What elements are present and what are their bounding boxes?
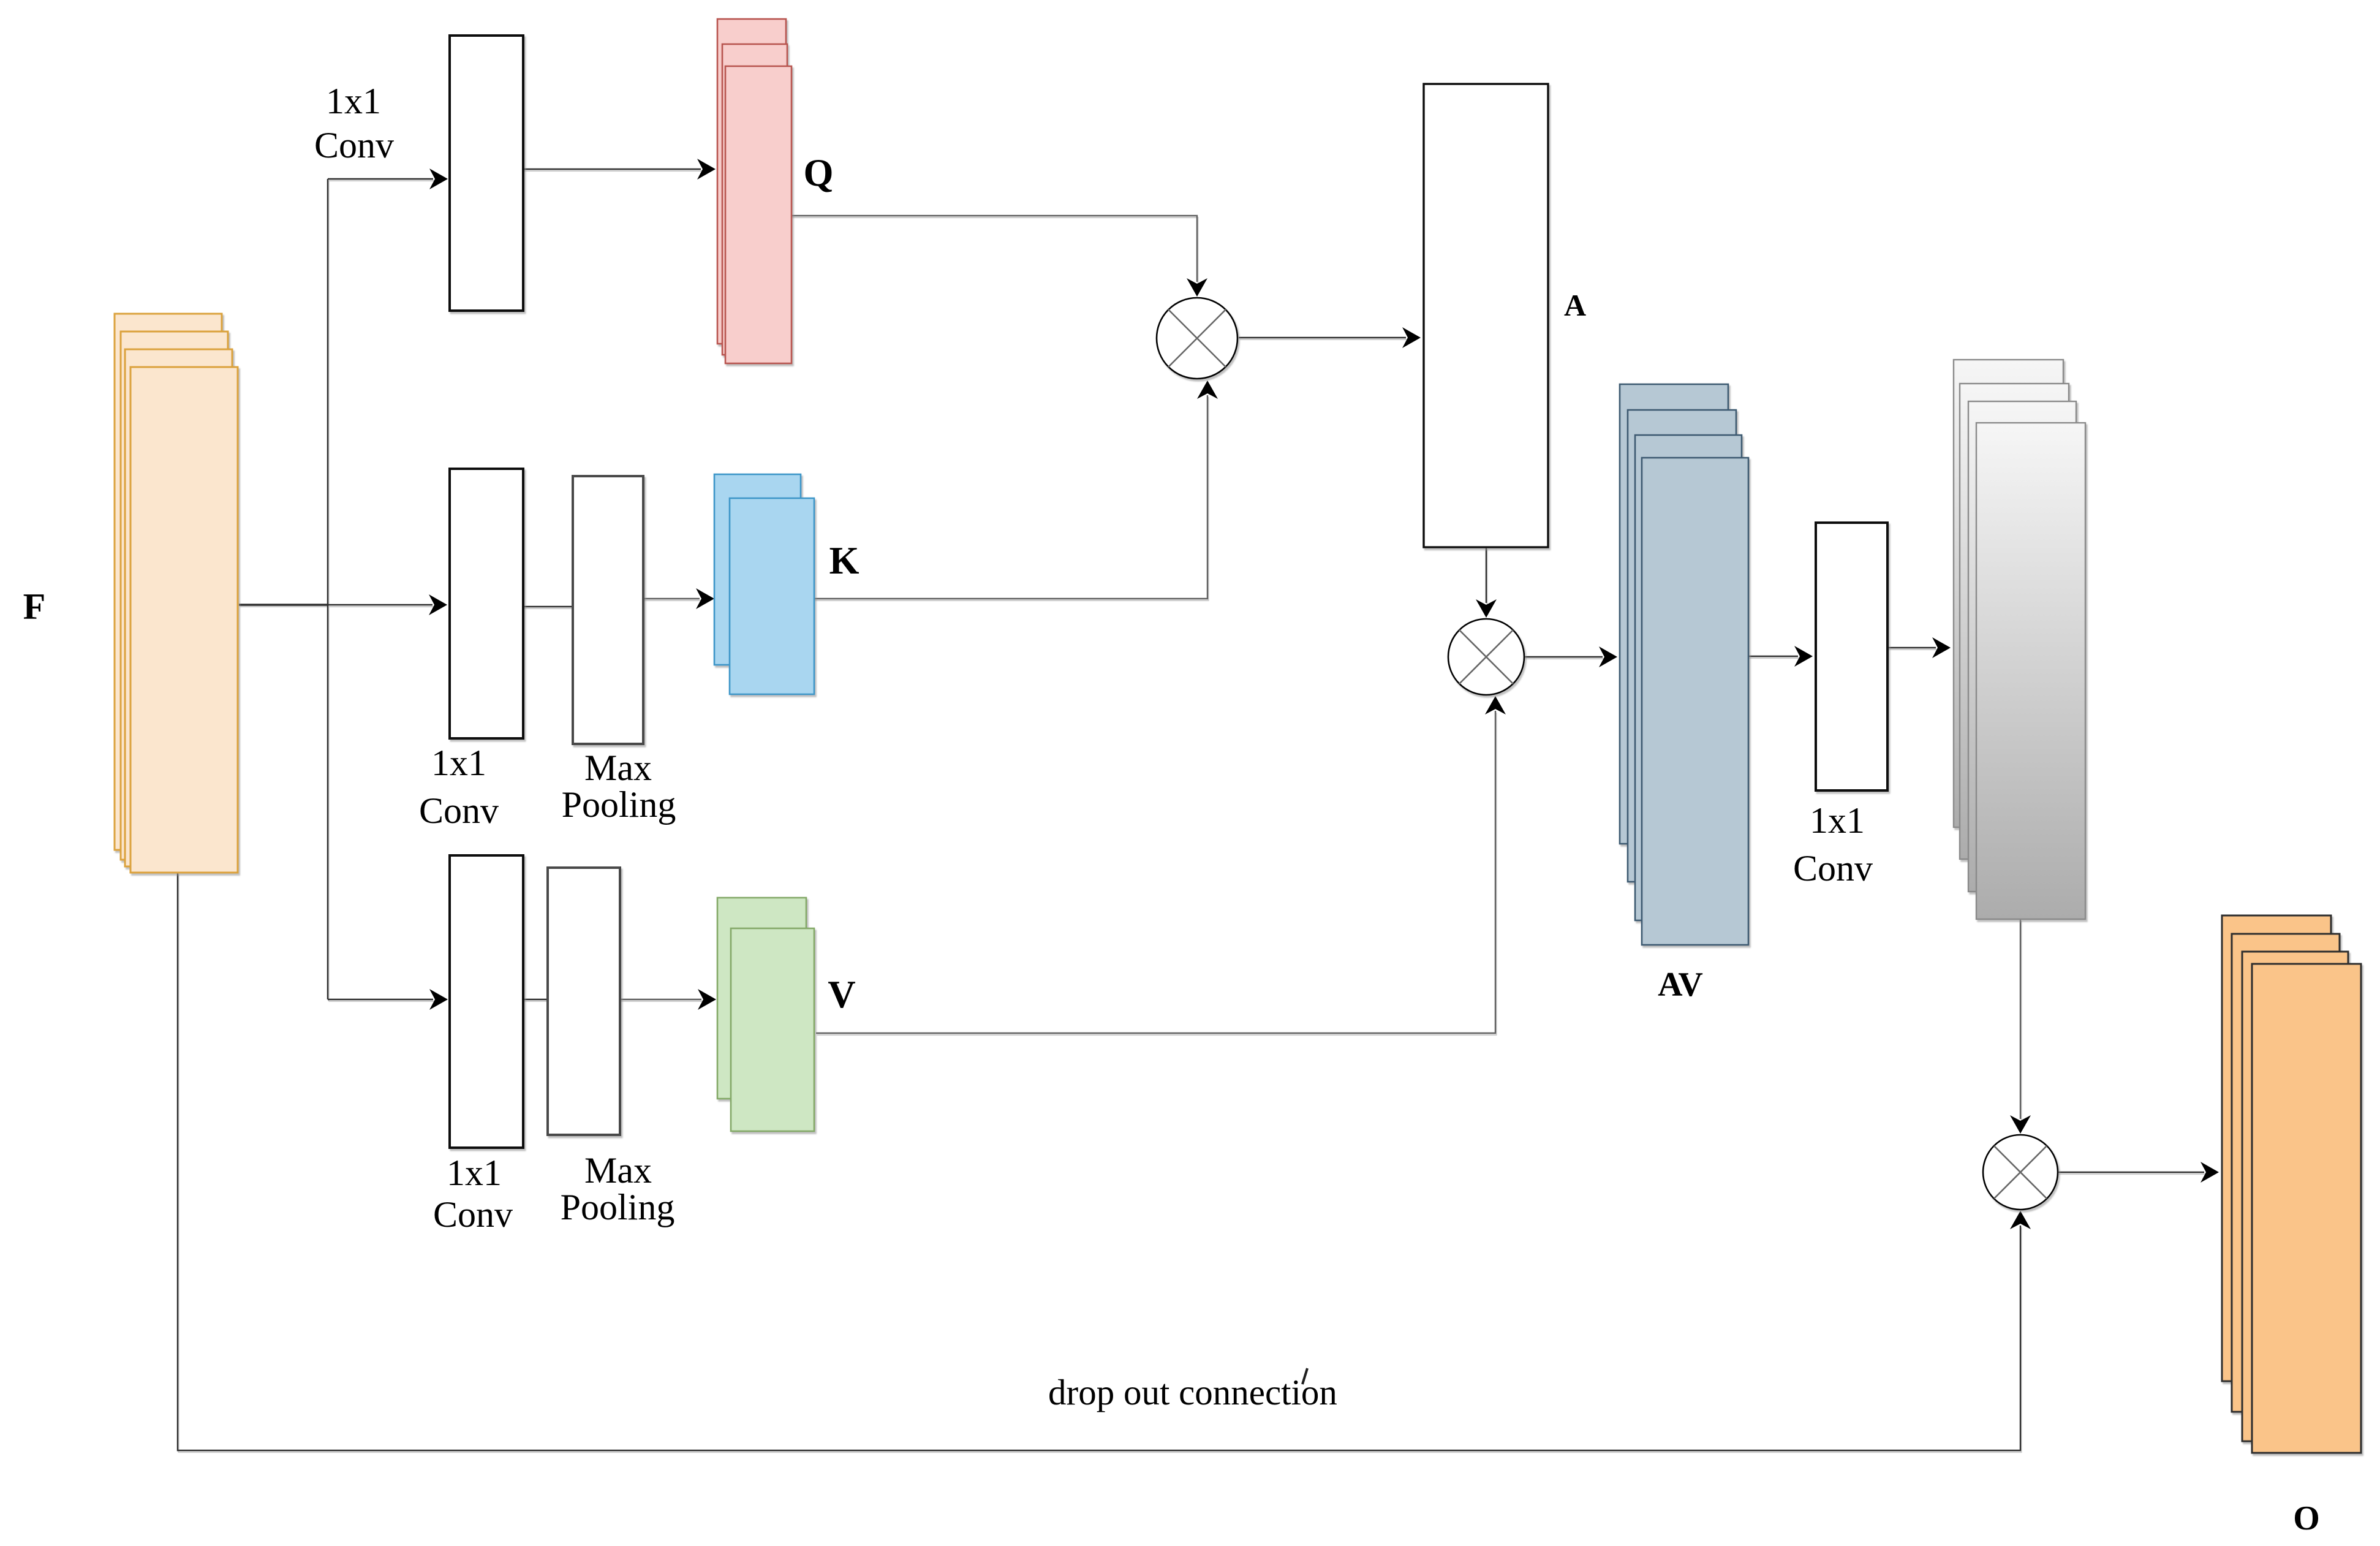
wire branch to V conv [328, 999, 433, 1000]
wire multiply3 to O [2058, 1172, 2204, 1173]
wire branch vertical [327, 179, 328, 999]
K max pooling box [573, 476, 643, 744]
wire V pool to V [620, 999, 701, 1000]
svg-text:1x1: 1x1 [1810, 800, 1865, 841]
arrow into K conv [429, 594, 447, 615]
arrow into AV conv [1794, 646, 1813, 667]
arrow into Q conv [429, 169, 448, 189]
wire multiply2 to AV [1524, 656, 1603, 657]
svg-text:Q: Q [803, 151, 833, 194]
gray stack [1954, 360, 2085, 919]
wire K conv to pool [523, 606, 573, 607]
arrow up into multiply1 [1197, 381, 1218, 399]
O stack [2222, 915, 2361, 1453]
arrow into A [1402, 327, 1421, 348]
arrowheads [429, 159, 2219, 1229]
svg-text:O: O [2293, 1499, 2320, 1537]
wire Q conv to Q [523, 169, 701, 170]
K conv box [450, 469, 523, 738]
svg-text:A: A [1564, 288, 1586, 322]
svg-text:Conv: Conv [314, 125, 394, 165]
V max pooling box [548, 868, 620, 1135]
multiply1 circle [1157, 298, 1237, 379]
arrow into gray stack [1932, 637, 1951, 658]
arrow down into multiply2 [1476, 599, 1497, 618]
wire shadows [179, 171, 2205, 1452]
Q conv box [450, 36, 523, 311]
svg-text:K: K [829, 539, 859, 582]
V stack [717, 898, 814, 1131]
arrow into V [698, 989, 716, 1010]
svg-text:Conv: Conv [419, 790, 499, 831]
A box [1424, 84, 1548, 547]
F stack [115, 314, 238, 873]
svg-text:drop out connection: drop out connection [1048, 1372, 1337, 1412]
arrow into AV [1599, 646, 1617, 667]
arrow up into multiply2 [1485, 696, 1506, 714]
wire multiply1 to A [1239, 337, 1406, 338]
stray tick mark [1302, 1368, 1307, 1384]
arrow down into multiply1 [1187, 278, 1207, 297]
svg-text:AV: AV [1658, 966, 1703, 1004]
Q stack [717, 19, 791, 363]
wire F to K conv [178, 169, 2204, 1450]
AV conv box [1816, 523, 1887, 790]
svg-text:Pooling: Pooling [562, 784, 676, 825]
wire A to multiply2 [1486, 547, 1487, 603]
wire drop out connection [178, 873, 2020, 1450]
wire branch to Q conv [328, 178, 433, 180]
svg-text:1x1: 1x1 [447, 1153, 502, 1193]
svg-text:Conv: Conv [1793, 848, 1873, 889]
svg-text:Max: Max [584, 748, 652, 788]
svg-text:1x1: 1x1 [431, 743, 486, 783]
arrow up into multiply3 [2010, 1211, 2031, 1229]
svg-text:Pooling: Pooling [561, 1187, 675, 1227]
AV stack [1620, 384, 1748, 945]
arrow into O [2201, 1162, 2219, 1183]
arrow into K [696, 588, 714, 609]
multiply2 circle [1448, 619, 1524, 695]
V conv box [450, 855, 523, 1148]
wire V to multiply2 [816, 711, 1495, 1033]
arrow into Q [697, 159, 716, 180]
wire conv to gray stack [1887, 647, 1936, 648]
svg-text:Max: Max [584, 1150, 652, 1191]
wire K to multiply1 [814, 395, 1207, 599]
svg-text:Conv: Conv [433, 1194, 513, 1235]
wire AV to conv [1748, 656, 1798, 657]
wire V conv to pool [523, 999, 548, 1000]
multiply3 circle [1983, 1135, 2058, 1210]
wire gray stack to multiply3 [2020, 919, 2021, 1119]
svg-text:V: V [828, 973, 856, 1016]
wire Q to multiply1 [791, 216, 1197, 282]
svg-text:1x1: 1x1 [326, 81, 381, 121]
K stack [714, 474, 814, 694]
svg-text:F: F [23, 586, 46, 627]
arrow into V conv [429, 989, 448, 1010]
arrow down into multiply3 [2010, 1115, 2031, 1134]
wire K pool to K [643, 598, 700, 599]
